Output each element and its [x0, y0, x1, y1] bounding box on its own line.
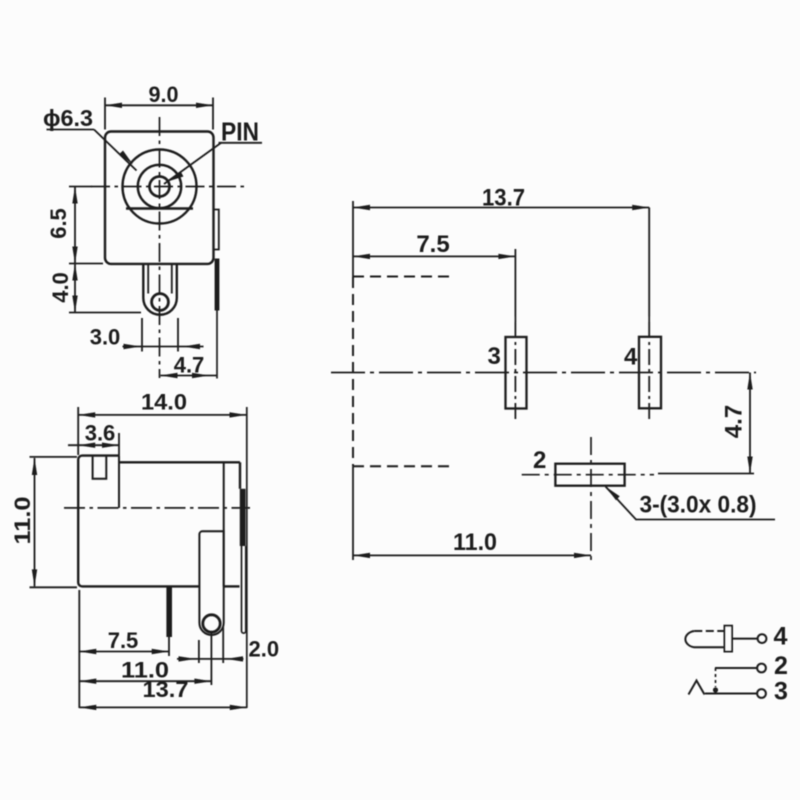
side view body top edge [119, 461, 240, 463]
dimension 2.0 line [177, 658, 244, 660]
footprint pad 2 vertical centerline [590, 437, 592, 560]
side view body right outer edge [239, 462, 241, 489]
dimension 14.0 line [78, 407, 247, 708]
lug hole center extension line [210, 632, 212, 685]
side view center pin (dark) [166, 586, 172, 637]
svg-text:7.5: 7.5 [416, 231, 449, 258]
footprint pad 3 centerline [514, 317, 516, 323]
dimension 13.7 bottom line [79, 706, 247, 708]
lug left edge extension line [198, 640, 200, 663]
svg-text:11.0: 11.0 [10, 497, 35, 545]
legend pin 4 terminal circle [758, 634, 767, 643]
label PIN leader line [164, 143, 222, 185]
dimension 3.0 line [123, 318, 204, 352]
footprint dashed body outline left [352, 277, 354, 466]
side view flange top edge [82, 454, 119, 456]
label phi 6.3 underline [47, 129, 95, 131]
dimension 3.6 arrows [78, 443, 119, 448]
legend pin 4 line [732, 638, 758, 640]
svg-text:4.7: 4.7 [174, 353, 205, 378]
legend pin 2 terminal circle [757, 664, 766, 673]
legend plug flange bar [725, 626, 733, 652]
legend plug bullet body [685, 631, 725, 647]
extension line left of horizontal centerline [69, 186, 92, 188]
dimension 9.0 line [105, 98, 213, 130]
front view body outline [105, 132, 214, 264]
dimension 3.6 line [68, 433, 119, 456]
legend pin 2 dashed drop line [715, 668, 717, 687]
svg-text:4: 4 [774, 623, 788, 651]
dimension 9.0 arrows [105, 103, 213, 108]
svg-text:7.5: 7.5 [108, 628, 139, 653]
footprint dimension 13.7 arrows [353, 205, 649, 210]
svg-text:14.0: 14.0 [141, 390, 187, 415]
side view flange right edge (upper half) [118, 456, 120, 508]
footprint pad note leader line [606, 487, 776, 520]
footprint pad note leader arrow [606, 487, 620, 501]
footprint dashed body outline bottom [353, 465, 451, 467]
dimension 11.0 bottom line [79, 680, 211, 682]
bottom dims left extension line [78, 590, 80, 708]
side view flange left edge with rounded corners [78, 456, 82, 587]
dimension 13.7 bottom arrows [79, 705, 247, 710]
front view vertical centerline [159, 117, 161, 378]
label PIN arrowhead [167, 172, 183, 182]
footprint dimension 4.7 line [749, 373, 751, 474]
side view flange notch [93, 456, 107, 479]
svg-text:2: 2 [774, 652, 788, 680]
side view body bottom edge right segment [224, 585, 240, 587]
footprint dimension 11.0 line [353, 554, 591, 556]
side view body bottom edge left segment [82, 585, 199, 587]
svg-text:3: 3 [488, 343, 501, 370]
side view solder lug [199, 531, 223, 635]
front view lug hole [152, 294, 169, 311]
dimension 7.5 arrows [79, 649, 168, 654]
footprint dimension 4.7 extension line [658, 473, 754, 475]
footprint dimension 4.7 arrows [747, 373, 752, 474]
label PIN underline [219, 142, 263, 144]
footprint dimension 7.5 arrows [353, 254, 515, 259]
svg-text:2: 2 [533, 447, 546, 474]
dimension 6.5 line [69, 187, 103, 264]
legend pin 3 terminal circle [757, 689, 766, 698]
svg-text:4.0: 4.0 [48, 272, 73, 303]
front view horizontal centerline [91, 186, 244, 188]
side view horizontal centerline [64, 507, 250, 509]
dimension 14.0 arrows [78, 412, 246, 417]
svg-text:3.6: 3.6 [85, 421, 116, 446]
svg-text:3.0: 3.0 [90, 325, 121, 350]
svg-text:4.7: 4.7 [721, 405, 748, 438]
legend pin 3 line [705, 693, 757, 695]
svg-text:3-(3.0x 0.8): 3-(3.0x 0.8) [640, 492, 757, 519]
footprint pad 2 horizontal centerline [522, 474, 654, 476]
center pin extension line [168, 637, 170, 656]
footprint pad 3 [506, 337, 527, 409]
footprint horizontal centerline [331, 372, 756, 374]
footprint dashed body outline top [353, 276, 451, 278]
footprint left extension to 11.0 [352, 466, 354, 560]
svg-text:11.0: 11.0 [453, 529, 497, 556]
dimension 2.0 arrows [179, 656, 244, 661]
front view right pin extension line [216, 310, 218, 379]
svg-text:13.7: 13.7 [143, 677, 189, 702]
dimension 6.5 arrows [72, 187, 77, 264]
dimension 7.5 line [79, 651, 168, 653]
svg-text:9.0: 9.0 [149, 82, 179, 107]
dimension 4.0 line [69, 264, 141, 313]
dimension 11.0 bottom arrows [79, 679, 211, 684]
side view lug hole [203, 615, 220, 632]
svg-text:6.5: 6.5 [46, 208, 71, 239]
front view bottom lug outline [143, 264, 177, 315]
front view lug inner right line [171, 264, 173, 294]
side view back pin dark bar [240, 489, 246, 546]
footprint pad 4 [639, 337, 661, 409]
dimension 4.7 arrows [161, 373, 210, 378]
dimension 4.7 line [161, 375, 218, 377]
footprint dimension 13.7 line [353, 201, 649, 317]
footprint pad 2 [555, 464, 624, 486]
legend pin 3 contact zigzag [689, 681, 705, 695]
dimension 4.0 arrows [72, 264, 77, 313]
svg-text:ϕ6.3: ϕ6.3 [43, 105, 93, 131]
dimension 3.0 arrows [124, 344, 201, 349]
front view chord flat line [126, 207, 193, 209]
footprint pad 4 centerline [648, 317, 650, 323]
front view outer barrel circle [123, 150, 197, 224]
front view right side tab [214, 210, 219, 250]
dimension 11.0 left arrows [32, 458, 37, 586]
side view back pin lower part [242, 546, 246, 633]
legend plug bullet top edge (dashed) [694, 630, 725, 632]
legend contact dot [713, 687, 718, 692]
side view body internal vertical line [223, 462, 225, 586]
label phi 6.3 arrowhead [119, 151, 133, 165]
svg-text:13.7: 13.7 [482, 185, 525, 212]
front view right pin (dark) [215, 259, 220, 311]
front view lug inner left line [147, 264, 149, 294]
footprint dimension 11.0 arrows [353, 553, 591, 558]
front view center pin circle [150, 177, 170, 197]
footprint dimension 7.5 line [353, 249, 515, 317]
svg-text:2.0: 2.0 [249, 637, 280, 662]
dimension 11.0 left line [30, 457, 78, 587]
svg-text:3: 3 [774, 678, 788, 706]
legend pin 2 line [715, 667, 757, 669]
front view middle circle [138, 165, 181, 208]
lug right edge extension line [222, 627, 224, 663]
svg-text:4: 4 [624, 344, 638, 371]
label phi 6.3 leader line [94, 130, 137, 171]
